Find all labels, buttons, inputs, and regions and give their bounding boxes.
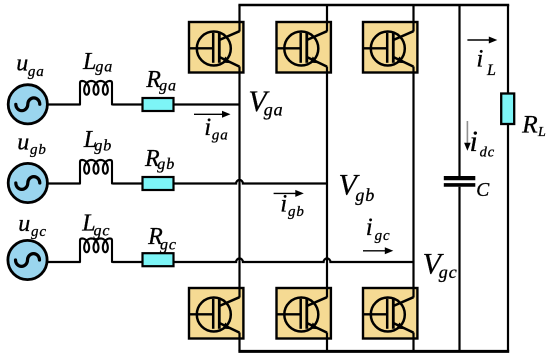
wire phase-c leg <box>412 5 414 351</box>
svg-text:u: u <box>18 211 30 237</box>
svg-text:i: i <box>470 125 478 158</box>
wire L_gc to R_gc <box>112 261 143 263</box>
inductor L_ga <box>80 81 112 105</box>
resistor R_gc <box>143 253 174 266</box>
IGBT bottom phase a <box>189 287 243 340</box>
wire u_gc to L_gc <box>47 261 81 263</box>
wire phase-a leg <box>238 5 240 351</box>
wire R_gb to leg b (hop over leg a) <box>174 180 329 184</box>
svg-text:gb: gb <box>30 142 47 158</box>
svg-text:gc: gc <box>375 228 391 244</box>
IGBT bottom phase b <box>277 287 331 340</box>
label i_gb <box>280 191 305 220</box>
label L_gb <box>83 127 113 154</box>
svg-text:gb: gb <box>157 156 175 173</box>
svg-text:ga: ga <box>159 77 177 94</box>
label C <box>476 180 490 201</box>
resistor R_ga <box>143 98 174 111</box>
svg-text:i: i <box>204 114 211 141</box>
label i_L <box>476 46 496 79</box>
wire load branch <box>507 5 509 351</box>
IGBT top phase a <box>189 21 243 74</box>
current arrow i_gb <box>274 190 304 197</box>
wire u_ga to L_ga <box>47 103 81 105</box>
ac source u_gc <box>8 240 47 279</box>
svg-text:gb: gb <box>355 185 375 205</box>
wire R_gc to leg c (hops over legs a and b) <box>174 258 415 262</box>
ac source u_ga <box>8 85 47 124</box>
IGBT bottom phase c <box>363 287 417 340</box>
wire top DC+ bus <box>238 4 509 6</box>
svg-text:gc: gc <box>94 223 111 240</box>
svg-text:dc: dc <box>480 145 496 161</box>
svg-text:R: R <box>521 110 538 139</box>
label R_gc <box>147 224 177 254</box>
svg-text:ga: ga <box>28 64 45 80</box>
label V_gb <box>339 168 376 205</box>
wire dc-link capacitor branch <box>458 5 460 351</box>
wire phase-b leg <box>326 5 328 351</box>
current arrow i_ga <box>194 111 231 118</box>
label R_gb <box>144 146 175 173</box>
wire L_ga to R_ga <box>112 103 143 105</box>
IGBT top phase c <box>363 21 417 74</box>
svg-text:u: u <box>17 129 29 155</box>
svg-text:u: u <box>16 51 28 77</box>
label L_gc <box>81 211 110 240</box>
current arrow i_dc <box>464 121 471 151</box>
current arrow i_gc <box>363 247 393 254</box>
inductor L_gc <box>80 238 112 262</box>
label R_ga <box>145 67 177 94</box>
svg-text:i: i <box>476 46 483 73</box>
label i_dc <box>470 125 496 161</box>
ac source u_gb <box>8 163 47 202</box>
label i_ga <box>204 114 229 144</box>
label V_gc <box>423 248 458 282</box>
svg-text:L: L <box>537 125 546 140</box>
IGBT top phase b <box>277 21 331 74</box>
label u_ga <box>16 51 44 80</box>
svg-text:gb: gb <box>94 137 112 154</box>
label V_ga <box>248 85 283 120</box>
svg-text:ga: ga <box>95 59 113 76</box>
svg-text:L: L <box>82 49 96 75</box>
svg-text:i: i <box>280 191 287 218</box>
resistor R_gb <box>143 177 174 190</box>
svg-text:L: L <box>486 62 496 79</box>
current arrow i_L <box>467 37 497 44</box>
resistor R_L <box>501 94 514 125</box>
svg-text:i: i <box>366 214 373 241</box>
inductor L_gb <box>80 160 112 184</box>
label L_ga <box>82 49 113 76</box>
wire R_ga to leg a <box>174 103 241 105</box>
svg-text:ga: ga <box>212 127 229 143</box>
wire u_gb to L_gb <box>47 182 81 184</box>
label u_gb <box>17 129 47 158</box>
label R_L <box>521 110 546 141</box>
svg-text:gc: gc <box>160 237 177 254</box>
svg-text:gb: gb <box>288 204 305 220</box>
wire L_gb to R_gb <box>112 182 143 184</box>
svg-text:gc: gc <box>31 224 47 240</box>
label i_gc <box>366 214 391 244</box>
svg-text:gc: gc <box>439 262 458 282</box>
svg-text:ga: ga <box>264 100 284 120</box>
label u_gc <box>18 211 47 240</box>
capacitor C <box>444 178 476 185</box>
wire bottom DC- bus <box>238 350 509 353</box>
svg-text:C: C <box>476 180 490 201</box>
